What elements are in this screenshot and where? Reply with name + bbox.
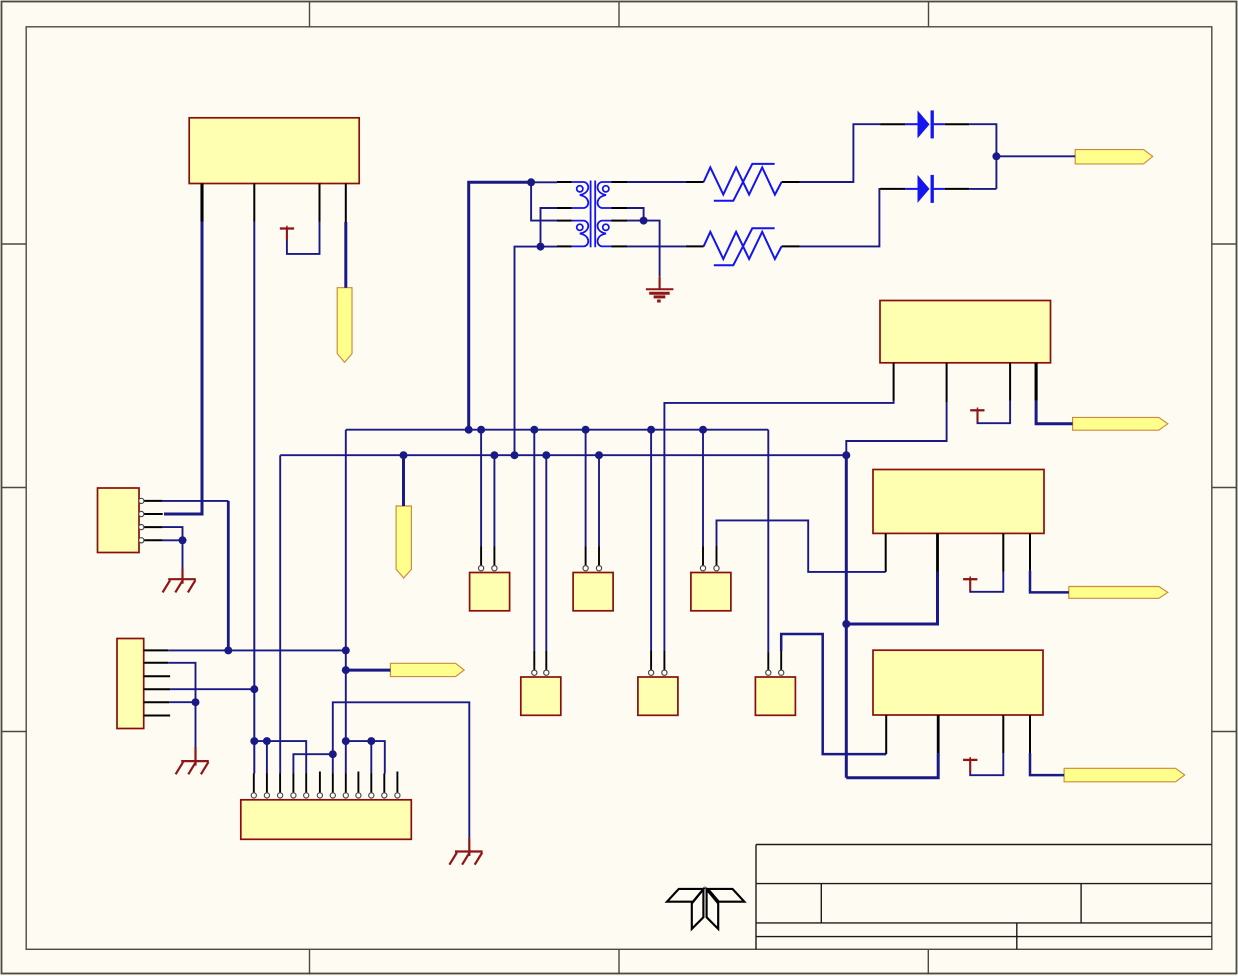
wire secondary center tap upper lead (627, 208, 644, 221)
pin U3.4 (1029, 533, 1031, 570)
pin RN4.2 (545, 651, 547, 670)
wire x=228 down to J2.1 net (227, 501, 230, 651)
net label VOUT4 (right of U4) (1064, 768, 1185, 782)
net label VOUT3 (right of U3) (1069, 587, 1168, 599)
pin RN3.2 (716, 546, 718, 566)
wire J1.1 to junction column x=228 (163, 500, 229, 502)
junction y1 x=468.7 (465, 426, 473, 434)
R2 zigzag body (704, 232, 782, 259)
pin RN1.1 (480, 547, 482, 566)
T1 secondary winding lower (598, 221, 614, 247)
resistor network RN4 (521, 677, 561, 715)
T1 polarity dot secondary lower (603, 224, 609, 230)
junction x=345.8 y=650.4 (342, 646, 350, 654)
wire y2 to vertical net flag (402, 455, 405, 506)
junction y2 x=846.3 (842, 451, 850, 459)
wire transformer lower winding bottom lead (541, 246, 558, 248)
wire y1 to RN3 left pin (702, 430, 704, 547)
D1 anode triangle (918, 110, 930, 138)
pin T1.1 (557, 181, 572, 183)
wire y2 corner down to J3 pin3 (279, 455, 281, 773)
junction y2 x=494.4 (490, 451, 498, 459)
wire right power column x=846.3 (845, 455, 848, 778)
pin J3.6 (n.c.) (319, 772, 321, 793)
wire U4.4 to net flag VOUT4 (1030, 753, 1064, 775)
junction y1 x=481.1 (477, 426, 485, 434)
pin U1.3 (319, 184, 321, 222)
wire U2.4 to net flag VOUT2 (1036, 401, 1073, 424)
connector J3 (bottom 12-pin header) (241, 800, 411, 840)
wire transformer primary dot down to upper winding (531, 182, 557, 220)
junction rectifier output (992, 152, 1000, 160)
junction J3.8 (342, 737, 350, 745)
wire J3 pin4 to pin7 column (293, 754, 332, 773)
bus y1 horizontal (346, 429, 769, 431)
resistor network RN5 (638, 677, 678, 715)
pin D2.A (880, 188, 905, 190)
connector J1 (upper-left 4-pin header) (98, 488, 140, 553)
wire output node to net flag VOUT1 (996, 155, 1075, 157)
junction J1.3/J1.4 (179, 536, 187, 544)
junction y1 x=703 (699, 426, 707, 434)
title block table (756, 845, 1212, 950)
pin J3.11 (383, 774, 385, 793)
junction y1 x=651.1 (647, 426, 655, 434)
pin D1.A (880, 123, 905, 125)
net label VOUT1 (right of diodes) (1075, 150, 1153, 164)
pin T1.8 (612, 181, 628, 183)
pin U3.1 (885, 533, 887, 572)
junction y2 x=599 (595, 451, 603, 459)
junction y1 x=534.3 (530, 426, 538, 434)
pin D1.K (945, 123, 970, 125)
wire y2 to transformer lower primary (515, 247, 541, 456)
wire U3.4 to net flag VOUT3 (1030, 571, 1069, 593)
wire J2.4 to column x=254 (170, 688, 254, 690)
pin R1.1 (686, 181, 704, 183)
pin J2.3 (n.c.) (144, 675, 170, 677)
wire transformer secondary bottom lead to R2 (627, 245, 686, 247)
resistor network RN3 (691, 573, 731, 611)
pin U4.4 (1029, 715, 1031, 753)
T1 polarity dot secondary upper (603, 186, 609, 192)
net label (vertical, middle) (396, 506, 411, 578)
wire D2 cathode to output node corner (969, 188, 996, 190)
pin J3.3 (279, 774, 281, 793)
junction x=345.8 y=670.1 (342, 666, 350, 674)
pin circles RN6 (766, 670, 771, 675)
pin J2.4 (144, 688, 170, 690)
pin circles J1 (139, 498, 144, 503)
connector J2 (lower-left 6-pin header) (117, 639, 144, 729)
resistor network RN6 (755, 677, 795, 715)
pin U2.1 (893, 363, 895, 401)
wire U1.3 to power symbol PWR1 (287, 222, 320, 254)
pin J1.3 (144, 526, 163, 528)
IC U3 (middle-right regulator block) (873, 470, 1044, 534)
IC U1 (top-left controller block) (189, 118, 359, 184)
junction transformer primary bottom (537, 243, 545, 251)
pin RN2.2 (598, 547, 600, 566)
IC U4 (lower-right regulator block) (873, 650, 1043, 715)
pin J3.7 (332, 774, 334, 793)
wire y2 right end up to U2.2 (846, 403, 946, 456)
pin circles RN5 (649, 670, 654, 675)
T1 primary winding lower (572, 221, 588, 247)
pin J3.2 (266, 774, 268, 793)
pin T1.6 (612, 220, 628, 222)
junction y2 x=514.5 (511, 451, 519, 459)
wire U4.1 to RN6 right pin (781, 634, 886, 754)
D2 anode triangle (918, 175, 930, 203)
pin J3.1 (253, 774, 255, 793)
wire transformer secondary top lead to R1 (627, 181, 686, 183)
wire y1 right corner down to RN6 left pin (767, 430, 769, 653)
pin U1.2 (253, 184, 255, 222)
wire R1 right to D1 anode (800, 124, 881, 182)
pin R1.2 (782, 181, 800, 183)
wire y1 to RN1 left pin (480, 430, 482, 547)
wire transformer primary top lead (531, 181, 557, 183)
wire y2 to RN1 right pin (493, 455, 495, 546)
pin circles RN2 (583, 566, 588, 571)
pin RN4.1 (533, 651, 535, 670)
TI logo (667, 889, 744, 929)
pin D2.K (945, 188, 970, 190)
pin U2.2 (946, 363, 948, 403)
pin J3.8 (345, 774, 347, 793)
wire J3 pin2 drop (266, 741, 268, 773)
wire R2 right up to D2 anode (800, 189, 881, 247)
wire J3 row y=741 right segment (346, 741, 385, 773)
pin circles RN4 (532, 670, 537, 675)
pin RN6.1 (767, 653, 769, 671)
net label VOUT2 (right of U2) (1073, 417, 1168, 430)
pin RN3.1 (702, 547, 704, 566)
junction J3.10 (367, 737, 375, 745)
R2 adjustment stroke (714, 228, 775, 265)
D2 lead segments (905, 188, 917, 190)
wire J3 row y=741 left segment (254, 741, 306, 773)
wire U2.1 to RN5 right pin (664, 401, 893, 651)
pin U3.3 (1002, 533, 1004, 571)
pin U4.2 (937, 715, 940, 753)
junction y1 x=585.6 (582, 426, 590, 434)
pin J1.2 (144, 513, 163, 515)
junction y2 x=546.3 (542, 451, 550, 459)
pin RN5.1 (650, 651, 652, 670)
wire x=345.8 junction down to p8 (345, 670, 347, 773)
pin U2.4 (1035, 363, 1038, 401)
wire U1.2 column x=254 down to J3 pin1 (253, 222, 255, 774)
wire y1 to RN2 left pin (585, 430, 587, 547)
junction J2.1 column (224, 646, 232, 654)
wire transformer lower primary dot up to winding leads (541, 208, 558, 247)
T1 secondary winding upper (598, 182, 614, 208)
pin RN1.2 (493, 547, 495, 566)
pin J3.10 (370, 774, 372, 793)
wire x=345.8 from bus-y1 corner down to junction (345, 430, 347, 670)
wire J2.1 horizontal to x=345.8 (168, 649, 346, 651)
pin circles J3 (251, 793, 256, 798)
IC U2 (upper-right regulator block) (880, 301, 1051, 363)
wire y2 to RN2 right pin (598, 455, 600, 546)
pin U1.4 (345, 184, 347, 223)
T1 polarity dot primary upper (577, 186, 583, 192)
T1 primary winding upper (572, 182, 588, 208)
wire y1 to RN5 left pin (650, 430, 652, 651)
pin T1.2 (557, 207, 572, 209)
pin J3.9 (n.c.) (357, 772, 359, 793)
resistor network RN2 (573, 573, 613, 611)
wire U3.1 to RN3 right pin (717, 520, 886, 572)
wire J3 pin7 to chassis ground G3 (333, 702, 470, 838)
T1 polarity dot primary lower (577, 224, 583, 230)
wire U1.1 to J1.2 (vertical thick) (164, 222, 202, 515)
R1 adjustment stroke (714, 164, 775, 201)
wire y1 to RN4 left pin (533, 430, 535, 651)
junction J3.2 (263, 737, 271, 745)
pin R2.2 (782, 245, 800, 247)
R1 zigzag body (704, 167, 782, 194)
pin U1.1 (200, 184, 203, 222)
wire x=846.3 branch to U3.2 (846, 572, 937, 625)
wire U4.3 to power symbol PWR4 (970, 753, 1003, 775)
pin U4.3 (1002, 715, 1004, 753)
pin R2.1 (686, 245, 704, 247)
pin J2.1 (144, 649, 169, 651)
pin J3.5 (305, 774, 307, 793)
pin RN2.1 (585, 547, 587, 566)
pin T1.4 (557, 245, 572, 247)
junction U3.2 tap (842, 620, 850, 628)
wire U1.4 to vertical net flag (344, 222, 347, 288)
pin U4.1 (885, 715, 887, 754)
wire secondary center tap lower lead to earth ground (627, 221, 660, 277)
pin J2.2 (144, 662, 169, 664)
wire y2 to RN4 right pin (545, 455, 547, 651)
net label (vertical, below U1) (337, 288, 352, 363)
wire J1.3 to J1.4 junction (163, 527, 183, 540)
pin J2.5 (144, 701, 170, 703)
wire D1 cathode to output node (969, 124, 996, 189)
pin T1.7 (612, 207, 628, 209)
junction J2.5 (192, 698, 200, 706)
wire y1 to transformer primary (thick riser) (469, 182, 531, 429)
wire J2.2 to J2.5 junction (168, 663, 195, 702)
pin J1.4 (144, 539, 163, 541)
pin RN6.2 (780, 651, 782, 670)
pin U2.3 (1009, 363, 1011, 401)
junction y2 x=403.5 (400, 451, 408, 459)
junction transformer primary top (527, 178, 535, 186)
junction secondary center tap (640, 217, 648, 225)
junction J3.1 (250, 737, 258, 745)
wire stub to net flag VIN (346, 669, 391, 672)
wire J3 pin10 drop (370, 741, 372, 773)
pin RN5.2 (663, 651, 665, 670)
junction J2.4 column x=254 (250, 685, 258, 693)
wire J2.5 to junction and ground G2 (169, 702, 195, 747)
pin U3.2 (936, 533, 939, 571)
pin T1.3 (557, 220, 572, 222)
wire U3.3 to power symbol PWR3 (970, 572, 1003, 592)
junction J3.7 (329, 750, 337, 758)
bus y2 horizontal (280, 454, 846, 456)
pin circles RN1 (479, 566, 484, 571)
pin circles RN3 (700, 566, 705, 571)
pin T1.5 (612, 245, 628, 247)
pin J3.4 (292, 774, 294, 793)
resistor network RN1 (470, 573, 510, 611)
pin J2.6 (n.c.) (144, 715, 170, 717)
wire J1.4 to ground G1 (163, 540, 183, 568)
D2 cathode bar (931, 175, 934, 203)
D1 cathode bar (931, 110, 934, 138)
D1 lead segments (905, 123, 917, 125)
wire U2.3 to power symbol PWR2 (978, 401, 1011, 423)
pin J3.12 (n.c.) (396, 772, 398, 793)
pin J1.1 (144, 500, 163, 502)
T1 core lines (590, 181, 592, 248)
net label VIN (middle left) (390, 663, 464, 676)
wire x=846.3 corner to U4.2 (846, 753, 938, 778)
